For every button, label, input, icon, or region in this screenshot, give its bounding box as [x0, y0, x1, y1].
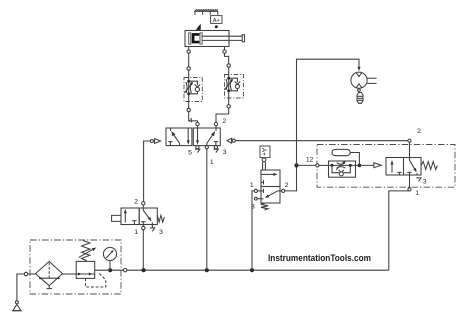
port label 1 (valve A1) — [250, 182, 254, 189]
wire node A to air device — [297, 59, 360, 165]
timer flow control (throttle + check) — [329, 161, 356, 177]
timer valve spring — [421, 162, 437, 170]
valve V3 exhaust port 3 — [214, 146, 219, 153]
port label 1 (valve V3) — [210, 159, 214, 166]
roller limit valve A1 (3/2 NC) — [261, 170, 280, 203]
junction gauge — [108, 268, 112, 272]
FRL dash-dot frame — [30, 240, 121, 294]
port label 1 (timer) — [415, 190, 419, 197]
timer dash-dot frame — [317, 145, 455, 188]
port label 4 — [189, 117, 193, 124]
port label 2 (valve A1) — [285, 182, 289, 189]
position flag marker — [196, 24, 201, 30]
svg-text:2: 2 — [134, 198, 138, 205]
svg-text:4: 4 — [189, 117, 193, 124]
wire reservoir to line — [350, 153, 359, 166]
port label 3 (valve S1) — [159, 229, 163, 236]
svg-text:1: 1 — [250, 182, 254, 189]
wire into flow control — [319, 164, 329, 166]
valve A1 port 1 — [254, 189, 261, 192]
wire valve A1 port 2 to node — [285, 165, 297, 191]
valve S1 port 2 — [142, 202, 145, 208]
label box A+ (cylinder end position) — [211, 16, 222, 24]
svg-text:InstrumentationTools.com: InstrumentationTools.com — [268, 253, 371, 263]
valve S1 spring — [157, 215, 164, 222]
valve A1 roller — [262, 158, 266, 170]
distance ruler scale — [194, 9, 218, 15]
supply line — [127, 269, 389, 271]
junction node A — [294, 163, 298, 167]
junction V3 supply — [205, 268, 209, 272]
flow control valve V2 (throttle + check) — [224, 64, 243, 108]
air supply source — [12, 301, 22, 311]
valve V3 left pilot 14 — [150, 139, 160, 144]
port label 2 (valve S1) — [134, 198, 138, 205]
wire V1 to valve port 4 — [189, 112, 198, 123]
port label 2 (timer) — [417, 128, 421, 135]
valve S1 push button — [112, 215, 121, 221]
svg-text:3: 3 — [159, 229, 163, 236]
wire cylinder right port to throttle V2 — [225, 53, 229, 64]
wire valve A1 port 1 to supply — [252, 191, 254, 270]
filter with water separator — [36, 261, 63, 288]
timer supply port 1 — [408, 175, 411, 191]
cylinder right port — [223, 47, 226, 54]
valve S1 port 1 — [142, 225, 145, 230]
timer air reservoir — [332, 149, 350, 155]
label box A+ (roller valve) — [260, 146, 270, 158]
wire timer port 1 to supply — [389, 191, 410, 270]
port label 3 (valve A1) — [251, 203, 255, 210]
port label 2 (valve top) — [222, 118, 226, 125]
svg-text:A+: A+ — [260, 148, 267, 156]
svg-text:1: 1 — [134, 229, 138, 236]
push-button valve S1 (3/2 NC) — [121, 208, 157, 225]
port label 3 (valve V3) — [223, 149, 227, 156]
svg-text:5: 5 — [188, 150, 192, 157]
device bottom port — [358, 88, 361, 92]
junction A+ valve supply — [250, 268, 254, 272]
pressure regulator — [76, 241, 106, 287]
svg-text:2: 2 — [417, 128, 421, 135]
cylinder left port — [187, 47, 190, 54]
wire valve S1 port 1 to supply — [142, 230, 144, 271]
flow arrow into device — [357, 67, 360, 71]
junction S1 supply — [142, 268, 146, 272]
wire source to FRL — [17, 274, 24, 301]
svg-text:3: 3 — [223, 149, 227, 156]
valve V3 exhaust port 5 — [195, 146, 200, 153]
timer 3/2 valve (pilot operated) — [386, 158, 421, 176]
svg-text:A+: A+ — [213, 18, 220, 24]
svg-text:1: 1 — [210, 159, 214, 166]
timer port 12 — [316, 164, 319, 167]
svg-text:1: 1 — [415, 190, 419, 197]
junction reservoir tap — [358, 164, 362, 168]
FRL output port — [124, 269, 127, 272]
svg-text:2: 2 — [285, 182, 289, 189]
port label 1 (valve S1) — [134, 229, 138, 236]
flow control valve V1 (throttle + check) — [184, 67, 202, 112]
port label 3 (timer) — [423, 179, 427, 186]
svg-text:3: 3 — [423, 179, 427, 186]
5/2-way valve V3 (double pilot) — [166, 128, 220, 146]
valve V3 right pilot 12 — [227, 138, 235, 143]
caption — [268, 253, 371, 263]
wire cylinder left port to throttle V1 — [188, 53, 190, 67]
marker dot under A+ label — [215, 25, 218, 28]
valve V3 port 4 — [196, 122, 199, 128]
wire to pilot — [356, 164, 374, 166]
silencer — [357, 93, 363, 104]
timer output port 2 — [408, 139, 411, 157]
timer pilot triangle — [374, 163, 381, 168]
svg-text:12: 12 — [306, 156, 314, 163]
wire input to filter — [28, 273, 36, 275]
port label 12 — [306, 156, 314, 163]
valve A1 exhaust port 3 — [254, 197, 261, 200]
timer valve exhaust 3 — [416, 178, 421, 182]
pressure gauge — [103, 247, 116, 268]
valve V3 port 2 — [214, 122, 217, 128]
port label 5 — [188, 150, 192, 157]
wire left pilot to valve S1 output — [144, 141, 151, 202]
cylinder A (double-acting) — [185, 31, 245, 47]
wire regulator to output — [95, 269, 124, 271]
valve A1 spring — [261, 203, 268, 210]
wire V2 to valve port 2 — [216, 108, 229, 122]
FRL input port — [24, 272, 27, 275]
svg-text:2: 2 — [222, 118, 226, 125]
valve A1 port 2 — [280, 189, 285, 192]
wire node A to timer port 12 — [297, 164, 316, 166]
wire filter to regulator — [62, 273, 76, 275]
valve S1 exhaust port 3 — [150, 225, 155, 232]
valve V3 supply port 1 — [205, 146, 208, 149]
wire right pilot to timer output — [235, 140, 408, 142]
wire valve V3 port 1 down — [206, 149, 208, 270]
air device (venturi/motor) — [351, 72, 377, 88]
